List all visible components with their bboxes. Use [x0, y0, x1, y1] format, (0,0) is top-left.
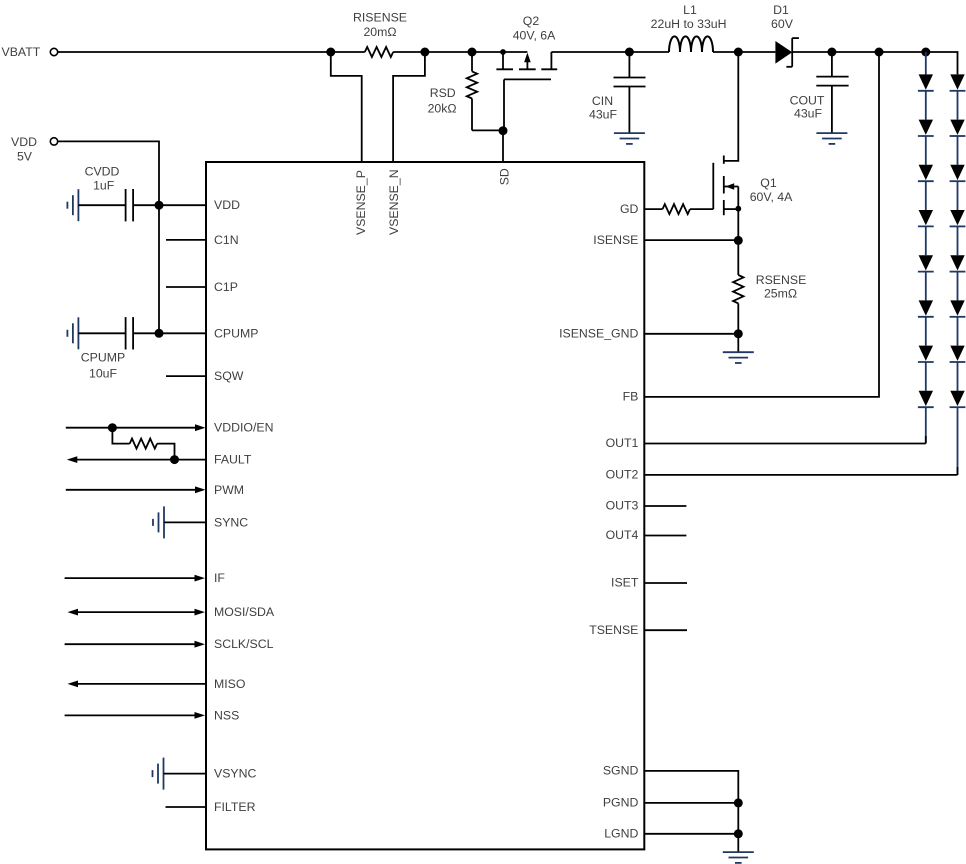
resistor RSENSE — [737, 240, 739, 275]
wire FB tap down — [644, 52, 879, 397]
wire D1 cathode to COUT — [792, 51, 832, 53]
wire RSD node to Q2 source — [472, 51, 503, 53]
wire PWM input arrow — [66, 489, 196, 491]
ground COUT — [816, 132, 847, 134]
capacitor COUT — [831, 52, 833, 77]
svg-text:PWM: PWM — [214, 483, 244, 497]
wire SYNC pin — [164, 521, 206, 523]
wire Q1 source to ISENSE — [737, 209, 739, 241]
svg-text:RSD: RSD — [430, 86, 456, 100]
svg-text:Q1: Q1 — [760, 176, 777, 190]
svg-text:VSYNC: VSYNC — [214, 767, 256, 781]
wire FAULT output arrow — [77, 459, 206, 461]
svg-text:ISENSE: ISENSE — [593, 233, 638, 247]
wire string1 segment — [925, 181, 927, 210]
LED D13 string1 — [919, 165, 933, 180]
wire OUT2 — [644, 474, 957, 476]
wire to ground — [737, 334, 739, 352]
junction dot RSD top — [468, 48, 477, 57]
LED D12 string1 — [919, 120, 933, 135]
svg-text:OUT3: OUT3 — [606, 499, 639, 513]
wire TSENSE stub — [644, 629, 687, 631]
junction dot CPUMP node — [155, 329, 164, 338]
wire LED string1 anode — [925, 52, 927, 74]
wire ISET stub — [644, 582, 687, 584]
svg-text:C1N: C1N — [214, 233, 239, 247]
junction dot LGND node — [734, 829, 743, 838]
ground power — [723, 851, 754, 853]
wire VDDIO/EN input arrow — [66, 427, 196, 429]
wire MOSI/SDA bidirectional arrow — [78, 611, 196, 613]
wire string1 segment — [925, 136, 927, 165]
wire Q2 drain to CIN — [551, 51, 629, 53]
wire COUT node to FB node — [832, 51, 879, 53]
wire VSENSE_P tap — [331, 52, 362, 162]
svg-text:SYNC: SYNC — [214, 515, 248, 529]
svg-text:RSENSE: RSENSE — [756, 273, 807, 287]
wire C1P stub — [166, 286, 206, 288]
wire PGND — [644, 802, 738, 804]
junction dot FB tap — [875, 48, 884, 57]
LED D22 string2 — [950, 120, 964, 135]
wire FB node to LED1 node — [879, 51, 926, 53]
wire VDD pin — [159, 204, 206, 206]
wire VBATT rail to RISENSE — [58, 51, 331, 53]
svg-text:20mΩ: 20mΩ — [363, 25, 396, 39]
wire string2 segment — [957, 181, 959, 210]
svg-text:SQW: SQW — [214, 369, 244, 383]
svg-text:22uH to 33uH: 22uH to 33uH — [651, 17, 727, 31]
svg-text:MISO: MISO — [214, 677, 245, 691]
ground SYNC — [163, 506, 165, 538]
junction dot Q1 source — [735, 206, 741, 212]
wire SD to IC — [502, 131, 504, 162]
wire ISENSE_GND pin — [644, 333, 738, 335]
ground VSYNC — [163, 758, 165, 790]
junction dot Q1 drain node — [734, 48, 743, 57]
junction dot RISENSE right — [420, 48, 429, 57]
svg-text:CIN: CIN — [592, 94, 613, 108]
junction dot RISENSE left — [326, 48, 335, 57]
junction dot FAULT node — [170, 455, 179, 464]
wire C1N stub — [166, 239, 206, 241]
terminal VBATT — [50, 48, 57, 55]
wire VDD to CPUMP node — [158, 205, 160, 333]
wire string2 segment — [957, 91, 959, 120]
LED D16 string1 — [919, 300, 933, 315]
resistor RISENSE — [331, 51, 365, 53]
capacitor CPUMP — [78, 332, 125, 334]
LED D23 string2 — [950, 165, 964, 180]
wire OUT1 — [644, 443, 926, 445]
wire PGND to LGND — [737, 803, 739, 834]
svg-text:VDD: VDD — [11, 135, 37, 149]
svg-text:L1: L1 — [683, 3, 697, 17]
svg-text:SGND: SGND — [603, 764, 639, 778]
resistor EN pull — [112, 428, 129, 444]
wire string2 segment — [957, 362, 959, 391]
svg-text:D1: D1 — [773, 3, 789, 17]
svg-text:43uF: 43uF — [589, 107, 618, 121]
svg-text:ISET: ISET — [611, 576, 639, 590]
inductor L1 — [669, 36, 713, 52]
svg-text:CVDD: CVDD — [85, 165, 120, 179]
svg-text:SD: SD — [497, 168, 511, 185]
LED D24 string2 — [950, 210, 964, 225]
LED D28 string2 — [950, 391, 964, 406]
svg-text:PGND: PGND — [603, 796, 639, 810]
ground CVDD left — [77, 189, 79, 221]
wire CIN node to L1 — [629, 51, 669, 53]
wire SQW stub — [166, 375, 206, 377]
svg-text:OUT4: OUT4 — [606, 528, 639, 542]
LED D11 string1 — [919, 74, 933, 89]
svg-text:1uF: 1uF — [93, 179, 115, 193]
junction dot COUT top — [827, 48, 836, 57]
wire string2 segment — [957, 317, 959, 346]
svg-text:20kΩ: 20kΩ — [428, 101, 457, 115]
LED D17 string1 — [919, 346, 933, 361]
ground ISENSE_GND — [723, 351, 754, 353]
wire VDD to IC — [58, 141, 159, 205]
wire MISO output arrow — [78, 683, 207, 685]
wire string1 segment — [925, 272, 927, 301]
svg-text:40V, 6A: 40V, 6A — [513, 29, 556, 43]
ground CIN — [614, 132, 645, 134]
capacitor CIN — [628, 52, 630, 78]
diode D1 schottky — [775, 41, 792, 64]
wire OUT3 stub — [644, 505, 686, 507]
svg-text:FILTER: FILTER — [214, 800, 256, 814]
svg-text:VBATT: VBATT — [2, 45, 41, 59]
svg-text:OUT1: OUT1 — [606, 436, 639, 450]
junction dot ISENSE node — [734, 236, 743, 245]
wire IF input arrow — [65, 577, 195, 579]
svg-text:ISENSE_GND: ISENSE_GND — [559, 327, 638, 341]
LED D15 string1 — [919, 255, 933, 270]
wire SGND — [644, 771, 738, 803]
junction dot EN node — [108, 423, 117, 432]
wire string1 segment — [925, 226, 927, 255]
svg-text:GD: GD — [620, 202, 639, 216]
wire string2 segment — [957, 272, 959, 301]
svg-text:IF: IF — [214, 571, 225, 585]
wire LGND to ground — [737, 834, 739, 852]
svg-text:5V: 5V — [17, 150, 33, 164]
ground CPUMP left — [77, 317, 79, 349]
svg-text:SCLK/SCL: SCLK/SCL — [214, 637, 274, 651]
transistor Q2 — [502, 52, 504, 69]
wire rail to Q2 body arrow — [503, 51, 527, 53]
IC U1 body — [206, 162, 644, 849]
LED D26 string2 — [950, 300, 964, 315]
transistor Q1 — [724, 52, 739, 161]
LED D21 string2 — [950, 74, 964, 89]
LED D14 string1 — [919, 210, 933, 225]
svg-text:RISENSE: RISENSE — [353, 11, 407, 25]
wire LED1 node to string2 corner — [926, 52, 958, 74]
wire string1 cathode to OUT1 — [925, 407, 927, 443]
svg-text:Q2: Q2 — [523, 14, 540, 28]
junction dot Q2 source stub — [500, 49, 506, 55]
svg-text:TSENSE: TSENSE — [589, 623, 638, 637]
wire node to D1 anode — [738, 51, 775, 53]
svg-text:OUT2: OUT2 — [606, 468, 639, 482]
wire OUT4 stub — [644, 535, 686, 537]
wire string2 segment — [957, 136, 959, 165]
wire VSYNC pin — [164, 773, 207, 775]
wire RISENSE to RSD node — [425, 51, 472, 53]
junction dot VDD node — [155, 201, 164, 210]
resistor GD gate — [644, 208, 662, 210]
junction dot PGND node — [734, 798, 743, 807]
wire string1 segment — [925, 317, 927, 346]
junction dot LED string1 top — [921, 48, 930, 57]
LED D25 string2 — [950, 255, 964, 270]
wire string2 cathode to OUT2 — [957, 407, 959, 475]
svg-text:MOSI/SDA: MOSI/SDA — [214, 605, 275, 619]
svg-text:60V: 60V — [771, 17, 794, 31]
svg-text:CPUMP: CPUMP — [214, 326, 258, 340]
svg-text:VDD: VDD — [214, 198, 240, 212]
wire NSS input arrow — [65, 714, 195, 716]
svg-text:25mΩ: 25mΩ — [764, 287, 797, 301]
svg-text:60V, 4A: 60V, 4A — [750, 190, 793, 204]
LED D18 string1 — [919, 391, 933, 406]
svg-text:COUT: COUT — [790, 93, 825, 107]
svg-text:VSENSE_N: VSENSE_N — [387, 169, 401, 235]
wire SCLK/SCL input arrow — [65, 643, 195, 645]
svg-text:VDDIO/EN: VDDIO/EN — [214, 421, 273, 435]
svg-text:NSS: NSS — [214, 708, 239, 722]
junction dot ISENSE_GND node — [734, 329, 743, 338]
wire L1 to Q1 drain node — [713, 51, 738, 53]
wire FILTER stub — [166, 806, 207, 808]
wire CPUMP pin — [159, 332, 206, 334]
svg-text:43uF: 43uF — [794, 107, 823, 121]
wire ISENSE pin — [644, 239, 738, 241]
junction dot SD node — [499, 126, 508, 135]
svg-text:VSENSE_P: VSENSE_P — [354, 170, 368, 235]
wire string1 segment — [925, 362, 927, 391]
wire string1 segment — [925, 91, 927, 120]
svg-text:FB: FB — [623, 390, 639, 404]
capacitor CVDD — [78, 204, 125, 206]
svg-text:FAULT: FAULT — [214, 453, 252, 467]
svg-text:LGND: LGND — [604, 827, 638, 841]
wire LGND — [644, 833, 738, 835]
svg-text:C1P: C1P — [214, 280, 238, 294]
svg-text:10uF: 10uF — [89, 367, 118, 381]
resistor RSD — [471, 52, 473, 71]
svg-text:CPUMP: CPUMP — [81, 351, 125, 365]
wire string2 segment — [957, 226, 959, 255]
wire VSENSE_N tap — [393, 52, 425, 162]
junction dot CIN top — [625, 48, 634, 57]
terminal VDD — [50, 138, 57, 145]
LED D27 string2 — [950, 346, 964, 361]
